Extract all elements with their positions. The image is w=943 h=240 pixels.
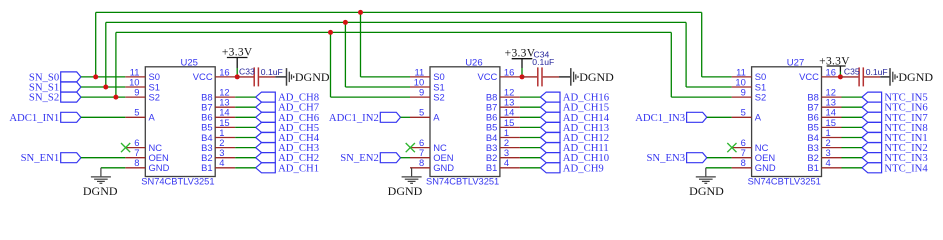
svg-text:9: 9 — [419, 87, 424, 98]
svg-text:0.1uF: 0.1uF — [261, 67, 283, 77]
svg-text:16: 16 — [826, 66, 836, 77]
svg-text:NTC_IN4: NTC_IN4 — [884, 162, 928, 174]
svg-text:+3.3V: +3.3V — [222, 47, 253, 59]
svg-text:A: A — [755, 112, 762, 123]
svg-text:U25: U25 — [181, 58, 198, 69]
svg-text:AD_CH9: AD_CH9 — [563, 162, 604, 174]
svg-text:+3.3V: +3.3V — [505, 48, 536, 60]
svg-text:B1: B1 — [201, 162, 212, 173]
svg-text:SN74CBTLV3251: SN74CBTLV3251 — [426, 177, 499, 187]
svg-text:DGND: DGND — [689, 184, 724, 198]
svg-text:AD_CH1: AD_CH1 — [278, 162, 319, 174]
svg-text:0.1uF: 0.1uF — [532, 57, 554, 67]
svg-text:SN_EN2: SN_EN2 — [340, 152, 379, 164]
svg-text:S2: S2 — [433, 91, 444, 102]
svg-text:4: 4 — [826, 157, 831, 168]
svg-text:DGND: DGND — [388, 184, 423, 198]
svg-text:A: A — [149, 112, 156, 123]
svg-text:VCC: VCC — [193, 71, 213, 82]
svg-text:DGND: DGND — [898, 70, 933, 84]
svg-text:4: 4 — [219, 157, 224, 168]
svg-text:ADC1_IN1: ADC1_IN1 — [9, 112, 59, 124]
svg-text:ADC1_IN3: ADC1_IN3 — [635, 112, 685, 124]
svg-text:S2: S2 — [755, 91, 766, 102]
svg-text:0.1uF: 0.1uF — [866, 67, 888, 77]
svg-text:A: A — [433, 112, 440, 123]
svg-text:DGND: DGND — [579, 70, 614, 84]
svg-text:B1: B1 — [486, 162, 497, 173]
svg-text:ADC1_IN2: ADC1_IN2 — [329, 112, 379, 124]
svg-text:16: 16 — [504, 66, 514, 77]
svg-text:9: 9 — [134, 87, 139, 98]
svg-text:GND: GND — [149, 162, 170, 173]
svg-text:U26: U26 — [465, 58, 482, 69]
svg-text:8: 8 — [741, 157, 746, 168]
svg-text:S2: S2 — [149, 91, 160, 102]
svg-text:SN74CBTLV3251: SN74CBTLV3251 — [748, 177, 821, 187]
svg-text:SN_EN1: SN_EN1 — [21, 152, 60, 164]
svg-text:16: 16 — [219, 66, 229, 77]
svg-text:SN74CBTLV3251: SN74CBTLV3251 — [141, 177, 214, 187]
svg-text:DGND: DGND — [83, 184, 118, 198]
svg-text:4: 4 — [504, 157, 509, 168]
svg-text:5: 5 — [419, 107, 424, 118]
svg-text:VCC: VCC — [478, 71, 498, 82]
svg-text:8: 8 — [134, 157, 139, 168]
svg-text:9: 9 — [741, 87, 746, 98]
svg-text:C33: C33 — [239, 67, 255, 77]
svg-text:SN_S2: SN_S2 — [29, 92, 59, 104]
svg-text:U27: U27 — [787, 58, 804, 69]
svg-text:5: 5 — [741, 107, 746, 118]
svg-text:C35: C35 — [844, 67, 860, 77]
svg-text:DGND: DGND — [295, 70, 330, 84]
svg-text:5: 5 — [134, 107, 139, 118]
svg-text:B1: B1 — [807, 162, 818, 173]
svg-text:VCC: VCC — [799, 71, 819, 82]
svg-text:GND: GND — [433, 162, 454, 173]
svg-text:SN_EN3: SN_EN3 — [646, 152, 685, 164]
svg-text:8: 8 — [419, 157, 424, 168]
svg-text:GND: GND — [755, 162, 776, 173]
